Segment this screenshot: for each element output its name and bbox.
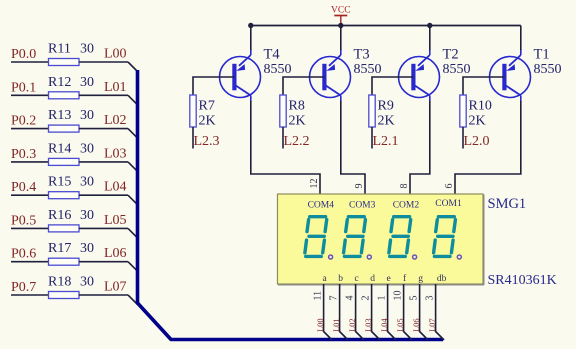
wire: [79, 128, 128, 130]
wire bus entry: [128, 129, 138, 139]
svg-text:R10: R10: [469, 99, 492, 114]
svg-text:e: e: [386, 274, 390, 284]
svg-text:3: 3: [425, 296, 436, 301]
svg-text:T3: T3: [354, 47, 370, 63]
svg-text:P0.4: P0.4: [11, 180, 36, 195]
resistor R9: [369, 95, 375, 127]
svg-text:R15: R15: [48, 175, 71, 190]
wire bus entry: [128, 62, 138, 72]
svg-text:8550: 8550: [264, 62, 292, 77]
svg-text:L04: L04: [104, 180, 127, 195]
svg-text:L06: L06: [411, 318, 421, 332]
wire collector to display: [455, 101, 521, 195]
svg-text:8550: 8550: [534, 62, 562, 77]
svg-text:T1: T1: [534, 47, 550, 63]
svg-text:COM1: COM1: [435, 199, 462, 209]
svg-text:L04: L04: [379, 318, 389, 332]
svg-text:30: 30: [80, 208, 94, 223]
svg-text:d: d: [370, 274, 375, 284]
svg-text:L2.2: L2.2: [284, 134, 310, 149]
svg-text:L06: L06: [104, 246, 127, 261]
svg-text:R11: R11: [48, 42, 71, 57]
transistor T4: [220, 49, 261, 102]
svg-text:L2.3: L2.3: [194, 134, 220, 149]
svg-text:30: 30: [80, 175, 94, 190]
digit 2: [344, 217, 366, 257]
transistor T3: [310, 49, 351, 102]
wire segment to bus: [324, 284, 333, 340]
svg-text:L00: L00: [315, 318, 325, 332]
wire: [79, 261, 128, 263]
svg-text:2K: 2K: [469, 114, 486, 129]
digit 1: [305, 217, 327, 257]
wire emitter: [520, 26, 522, 51]
svg-text:COM3: COM3: [349, 201, 376, 211]
wire: [11, 161, 49, 163]
svg-text:R8: R8: [289, 99, 305, 114]
svg-text:2: 2: [361, 296, 372, 301]
svg-text:R16: R16: [48, 208, 71, 223]
svg-text:b: b: [338, 274, 343, 284]
svg-text:L03: L03: [104, 146, 127, 161]
wire resistor stub: [192, 127, 194, 149]
svg-text:R12: R12: [48, 75, 71, 90]
svg-text:11: 11: [313, 291, 324, 301]
resistor R10: [460, 95, 466, 127]
wire: [11, 294, 49, 296]
svg-text:COM2: COM2: [393, 201, 420, 211]
wire base: [463, 77, 505, 95]
svg-text:SR410361K: SR410361K: [488, 273, 557, 288]
resistor R17: [49, 258, 80, 265]
wire base: [193, 77, 235, 95]
wire emitter: [250, 26, 252, 51]
svg-text:4: 4: [345, 296, 356, 301]
decimal point: [367, 255, 371, 259]
svg-text:L03: L03: [363, 318, 373, 332]
junction: [427, 23, 432, 28]
power port VCC: [331, 6, 351, 26]
svg-text:2K: 2K: [378, 114, 395, 129]
resistor R14: [49, 158, 80, 165]
wire: [11, 194, 49, 196]
svg-text:10: 10: [393, 291, 404, 301]
svg-text:L02: L02: [347, 318, 357, 332]
svg-text:6: 6: [444, 184, 455, 189]
svg-text:T4: T4: [264, 47, 281, 63]
svg-text:9: 9: [354, 184, 365, 189]
resistor R7: [190, 95, 196, 127]
svg-text:R13: R13: [48, 108, 71, 123]
digit 3: [389, 217, 411, 257]
svg-text:R18: R18: [48, 275, 71, 290]
wire: [79, 294, 128, 296]
resistor R11: [49, 59, 80, 66]
svg-text:2K: 2K: [199, 114, 216, 129]
svg-text:P0.5: P0.5: [11, 213, 36, 228]
junction: [338, 23, 343, 28]
svg-text:P0.3: P0.3: [11, 147, 36, 162]
wire: [11, 94, 49, 96]
svg-text:c: c: [354, 274, 358, 284]
svg-text:30: 30: [80, 241, 94, 256]
bus L00-L07: [138, 70, 444, 340]
wire segment to bus: [356, 284, 365, 340]
svg-text:L05: L05: [395, 318, 405, 332]
resistor R8: [280, 95, 286, 127]
svg-text:L2.0: L2.0: [464, 134, 490, 149]
wire emitter: [429, 26, 431, 51]
svg-text:30: 30: [80, 275, 94, 290]
svg-text:12: 12: [309, 179, 320, 189]
svg-text:8550: 8550: [354, 62, 382, 77]
wire resistor stub: [371, 127, 373, 149]
svg-text:L01: L01: [104, 80, 127, 95]
svg-text:30: 30: [80, 141, 94, 156]
decimal point: [329, 255, 333, 259]
display SMG1 SR410361K: [278, 194, 485, 285]
wire segment to bus: [404, 284, 413, 340]
svg-text:R9: R9: [378, 99, 394, 114]
svg-text:L2.1: L2.1: [373, 134, 399, 149]
transistor T2: [399, 49, 440, 102]
svg-text:P0.7: P0.7: [11, 280, 36, 295]
wire collector to display: [251, 101, 320, 195]
wire segment to bus: [372, 284, 381, 340]
svg-text:5: 5: [409, 296, 420, 301]
wire resistor stub: [282, 127, 284, 149]
decimal point: [457, 255, 461, 259]
svg-text:SMG1: SMG1: [488, 196, 527, 212]
wire: [79, 194, 128, 196]
resistor R12: [49, 92, 80, 99]
wire: [11, 261, 49, 263]
svg-text:R7: R7: [199, 99, 215, 114]
wire bus entry: [128, 228, 138, 238]
wire bus entry: [128, 295, 138, 305]
wire base: [283, 77, 325, 95]
svg-text:P0.0: P0.0: [11, 47, 36, 62]
wire bus entry: [128, 162, 138, 172]
wire bus entry: [128, 95, 138, 105]
svg-text:2K: 2K: [289, 114, 306, 129]
svg-text:VCC: VCC: [331, 6, 351, 16]
svg-text:T2: T2: [443, 47, 459, 63]
svg-text:L02: L02: [104, 113, 127, 128]
svg-text:30: 30: [80, 42, 94, 57]
wire collector to display: [341, 101, 365, 195]
svg-text:30: 30: [80, 75, 94, 90]
svg-text:8550: 8550: [443, 62, 471, 77]
wire: [79, 161, 128, 163]
wire resistor stub: [462, 127, 464, 149]
wire: [79, 227, 128, 229]
wire: [11, 227, 49, 229]
wire emitter: [340, 26, 342, 51]
transistor T1: [490, 49, 531, 102]
svg-text:P0.1: P0.1: [11, 80, 36, 95]
wire bus entry: [128, 195, 138, 205]
svg-text:P0.6: P0.6: [11, 247, 36, 262]
wire base: [372, 77, 414, 95]
wire segment to bus: [420, 284, 429, 340]
wire collector to display: [410, 101, 430, 195]
svg-text:P0.2: P0.2: [11, 114, 36, 129]
svg-text:L05: L05: [104, 213, 127, 228]
svg-text:L01: L01: [331, 318, 341, 332]
svg-text:R17: R17: [48, 241, 71, 256]
wire: [11, 61, 49, 63]
svg-text:L07: L07: [104, 280, 127, 295]
svg-text:R14: R14: [48, 141, 71, 156]
wire segment to bus: [340, 284, 349, 340]
wire segment to bus: [388, 284, 397, 340]
svg-text:L00: L00: [104, 47, 127, 62]
resistor R13: [49, 125, 80, 132]
decimal point: [413, 255, 417, 259]
wire: [11, 128, 49, 130]
wire VCC rail: [251, 25, 521, 27]
svg-text:8: 8: [399, 184, 410, 189]
wire segment to bus: [436, 284, 445, 340]
junction: [248, 23, 253, 28]
resistor R15: [49, 192, 80, 199]
wire: [79, 61, 128, 63]
resistor R18: [49, 292, 80, 299]
svg-text:30: 30: [80, 108, 94, 123]
svg-text:COM4: COM4: [308, 201, 335, 211]
resistor R16: [49, 225, 80, 232]
wire: [79, 94, 128, 96]
wire bus entry: [128, 262, 138, 272]
svg-text:g: g: [418, 274, 423, 284]
svg-text:7: 7: [329, 296, 340, 301]
svg-text:1: 1: [377, 296, 388, 301]
svg-text:db: db: [437, 274, 447, 284]
digit 4: [434, 217, 456, 257]
svg-text:L07: L07: [427, 318, 437, 332]
